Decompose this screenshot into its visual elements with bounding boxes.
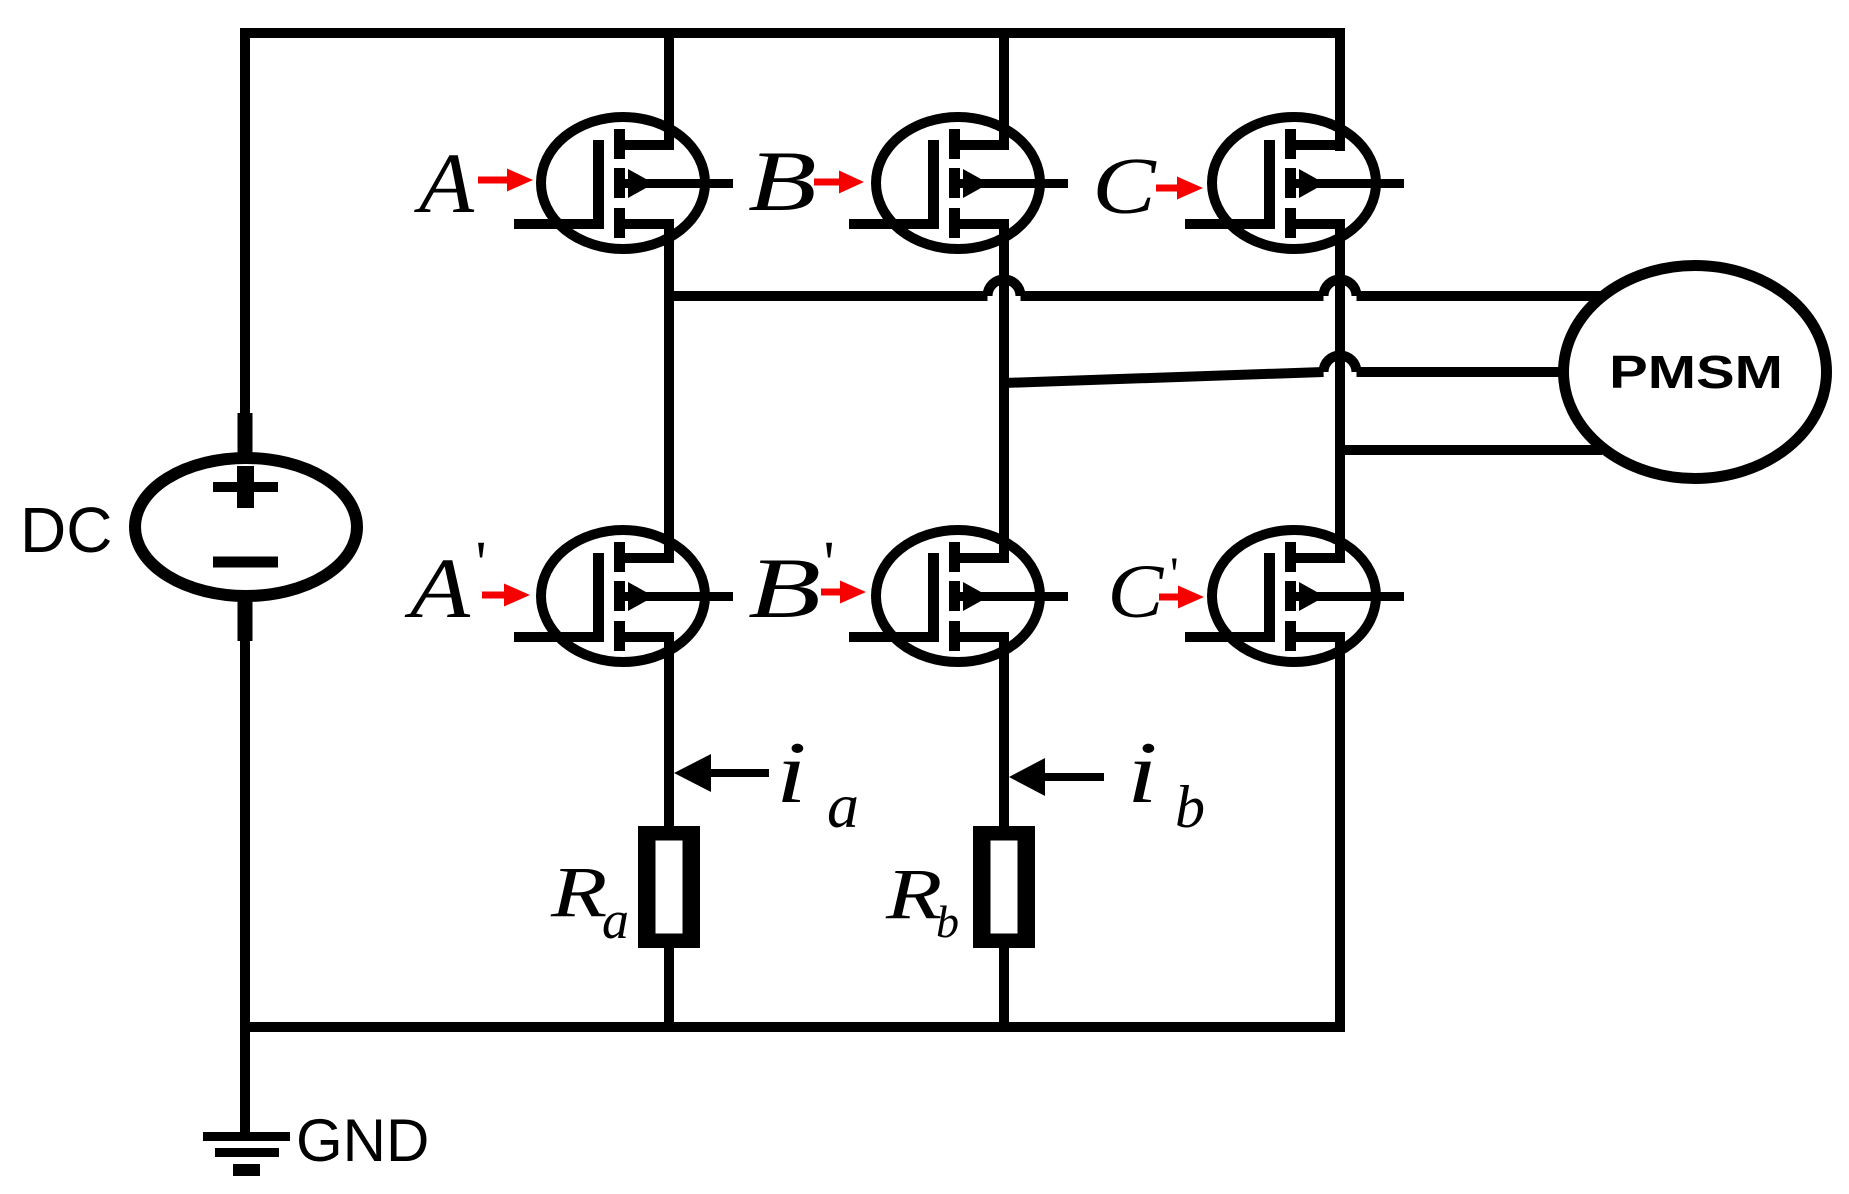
transistor QB' (lower phase B switch) <box>849 530 1068 662</box>
current arrow ia <box>674 754 769 792</box>
wire: phase C bus middle (QC source to QC' drain, node c) <box>1335 219 1345 563</box>
svg-text:C: C <box>1108 550 1166 634</box>
transistor QC (upper phase C switch) <box>1185 117 1404 249</box>
label R_b <box>885 854 959 947</box>
wire: Ra bottom to ground rail <box>664 946 674 1027</box>
label R_a <box>550 852 629 950</box>
svg-text:PMSM: PMSM <box>1609 348 1783 399</box>
wire: DC negative lead down to bottom rail and GND <box>240 598 250 1136</box>
wire: phase B bus middle (QB source to QB' drain, node b) <box>999 219 1009 563</box>
svg-text:A: A <box>414 135 475 231</box>
svg-text:i: i <box>776 723 807 821</box>
wire: phase A bus middle (QA source to QA' drain, node a) <box>664 219 674 563</box>
wire: bottom ground rail with phase-C bus corner <box>245 632 1340 1027</box>
wire: phase B output into PMSM <box>1357 367 1566 377</box>
wire: top DC+ rail with left vertical and phase-C bus corner <box>245 33 1340 420</box>
svg-text:i: i <box>1127 723 1158 821</box>
svg-text:R: R <box>550 852 607 932</box>
svg-text:b: b <box>1175 774 1205 840</box>
resistor Rb <box>973 826 1035 948</box>
wire: phase C output from node c into PMSM <box>1340 445 1602 455</box>
svg-text:a: a <box>602 890 629 950</box>
transistor QA' (lower phase A switch) <box>514 530 733 662</box>
svg-text:': ' <box>476 530 487 598</box>
voltage source DC <box>135 413 357 641</box>
red arrow into gate B' <box>821 581 866 604</box>
label C' (gate signal) <box>1108 548 1179 634</box>
red arrow into gate C <box>1156 177 1203 200</box>
svg-text:b: b <box>936 896 959 947</box>
svg-text:a: a <box>827 770 859 841</box>
wire: phase A output to PMSM <box>669 291 988 301</box>
transistor QC' (lower phase C switch) <box>1185 530 1404 662</box>
red arrow into gate A <box>478 169 533 192</box>
ground symbol <box>203 1137 290 1171</box>
svg-text:R: R <box>885 854 942 934</box>
motor PMSM <box>1564 266 1827 479</box>
label B' (gate signal) <box>748 530 835 636</box>
svg-text:': ' <box>824 530 835 598</box>
svg-text:GND: GND <box>296 1107 429 1174</box>
wire: phase B output from node b <box>1004 372 1324 383</box>
wire jump: phase A wire over phase B bus <box>988 280 1021 297</box>
wire: phase A output continues <box>1021 291 1324 301</box>
transistor QB (upper phase B switch) <box>849 117 1068 249</box>
wire jump: phase B wire over phase C bus <box>1324 356 1357 372</box>
current arrow ib <box>1009 758 1104 796</box>
label A' (gate signal) <box>404 530 486 636</box>
red arrow into gate A' <box>482 584 530 607</box>
wire: phase B bus top (drain of QB) <box>999 33 1009 150</box>
label i_b <box>1127 723 1205 840</box>
svg-text:A: A <box>404 540 470 636</box>
svg-text:B: B <box>748 133 817 228</box>
svg-text:C: C <box>1092 143 1157 231</box>
svg-text:DC: DC <box>20 494 112 566</box>
svg-text:': ' <box>1170 548 1179 601</box>
wire: phase B bus lower (QB' source to resistor Rb) <box>999 632 1009 828</box>
red arrow into gate B <box>814 171 864 194</box>
red arrow into gate C' <box>1159 586 1204 609</box>
label i_a <box>776 723 859 841</box>
wire: Rb bottom to ground rail <box>999 946 1009 1027</box>
wire: phase A bus lower (QA' source to resistor Ra) <box>664 632 674 828</box>
transistor QA (upper phase A switch) <box>514 117 733 249</box>
svg-text:B: B <box>748 540 821 636</box>
resistor Ra <box>638 826 700 948</box>
wire: phase A output into PMSM <box>1357 291 1604 301</box>
wire jump: phase A wire over phase C bus <box>1324 280 1357 297</box>
wire: phase C bus top (drain of QC) <box>1335 33 1345 151</box>
wire: phase A bus top (drain of QA) <box>664 33 674 150</box>
